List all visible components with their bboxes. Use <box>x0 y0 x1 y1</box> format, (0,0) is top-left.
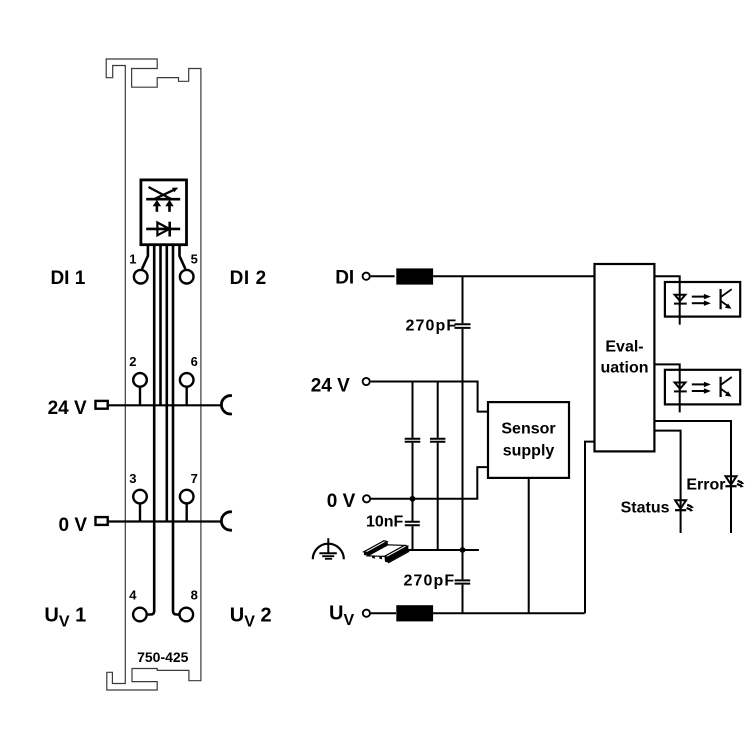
24V square connector <box>96 401 108 409</box>
optocoupler OC1 box <box>665 282 740 317</box>
LED diode arrow 1 head <box>153 200 161 207</box>
wire UV terminal to filter <box>371 612 396 614</box>
error LED emission arrows <box>737 481 742 486</box>
svg-text:10nF: 10nF <box>366 514 404 531</box>
LED indicator box <box>141 180 187 245</box>
wire capacitor C2 branch <box>412 382 414 551</box>
0V jumper contact arc <box>221 512 232 530</box>
svg-text:5: 5 <box>191 252 198 267</box>
wire DI filter to evaluation <box>433 275 594 277</box>
terminal 3 stem <box>139 503 141 521</box>
svg-text:0 V: 0 V <box>327 491 356 512</box>
svg-text:Error: Error <box>686 477 725 494</box>
wire UV line <box>433 612 585 614</box>
svg-text:24 V: 24 V <box>311 376 350 397</box>
OC1 emitter <box>721 301 729 307</box>
diode D1 triangle <box>157 223 169 236</box>
svg-text:uation: uation <box>601 359 649 376</box>
ground bar 2 <box>322 555 334 557</box>
svg-text:1: 1 <box>129 252 136 267</box>
capacitor C5 270pF plates <box>455 580 471 583</box>
evaluation box <box>595 264 655 451</box>
status LED cathode <box>675 509 686 511</box>
ground bar 3 <box>325 558 332 560</box>
OC1 collector <box>721 289 732 297</box>
DIN rail icon foot 2 <box>379 556 382 559</box>
optocoupler OC2 box <box>665 370 740 405</box>
svg-text:6: 6 <box>191 354 198 369</box>
OC2 collector <box>721 377 732 385</box>
OC2 coupling arrow 2 <box>692 390 705 392</box>
status LED triangle <box>675 500 686 508</box>
svg-text:Eval-: Eval- <box>605 338 643 355</box>
terminal 1 <box>134 270 148 284</box>
wire evaluation to optocoupler 2 <box>654 364 679 412</box>
svg-text:Sensor: Sensor <box>501 421 555 438</box>
DIN rail icon front flange end cap <box>385 556 389 562</box>
wire m4 box to terminal 8 <box>173 244 179 615</box>
wire evaluation to optocoupler 1 <box>654 276 679 324</box>
functional earth stem <box>327 538 329 553</box>
24V rail line <box>108 404 222 406</box>
wire 24V line <box>371 382 488 412</box>
wire 0V line <box>371 467 488 499</box>
junction dot 0V C2 <box>410 496 416 502</box>
LED emission arrow shaft <box>155 190 175 199</box>
terminal 8 <box>180 608 194 622</box>
status LED emission arrows <box>687 505 692 510</box>
capacitor C4 10nF plates <box>405 522 420 525</box>
LED diode arrow 1 stem <box>156 205 159 212</box>
diode D1 line <box>146 228 180 231</box>
svg-text:DI 2: DI 2 <box>230 268 267 289</box>
LED diagonal line <box>149 187 172 199</box>
svg-text:Status: Status <box>621 499 670 516</box>
terminal 7 <box>180 490 194 504</box>
svg-text:DI 1: DI 1 <box>50 268 85 289</box>
svg-text:270pF: 270pF <box>404 572 456 589</box>
capacitor C1 270pF plates <box>455 324 471 328</box>
terminal 5 <box>180 270 194 284</box>
DIN rail icon back flange wall <box>367 542 388 556</box>
capacitor C2 plates <box>405 439 421 442</box>
diode D1 cathode <box>168 222 171 237</box>
0V rail line <box>108 520 222 522</box>
svg-text:supply: supply <box>503 443 555 460</box>
OC2 phototransistor bar <box>719 377 721 397</box>
terminal 4 <box>133 608 147 622</box>
svg-text:0 V: 0 V <box>58 515 87 536</box>
error LED cathode <box>725 485 736 487</box>
OC1 LED triangle <box>675 295 686 301</box>
svg-text:8: 8 <box>191 588 198 603</box>
wire box to terminal 1 <box>142 244 148 269</box>
wire evaluation to UV stub <box>585 442 595 614</box>
DIN rail icon channel floor <box>368 545 405 557</box>
OC2 emitter <box>721 389 729 395</box>
svg-text:270pF: 270pF <box>406 317 458 334</box>
wire m2 box to 24V rail <box>159 244 162 406</box>
wire m3 box to 0V rail <box>166 244 169 522</box>
wire evaluation to error LED <box>654 421 731 533</box>
wire DI terminal to filter <box>371 275 395 277</box>
filter resistor DI <box>396 268 433 284</box>
svg-text:3: 3 <box>129 471 136 486</box>
OC2 coupling arrow 1 <box>692 383 705 385</box>
svg-text:UV 2: UV 2 <box>230 604 272 630</box>
terminal 2 stem <box>139 387 141 406</box>
filter resistor UV <box>396 605 433 621</box>
wire box to terminal 5 <box>180 244 186 269</box>
sensor supply box <box>488 402 569 478</box>
OC2 LED cathode <box>674 390 687 392</box>
svg-text:2: 2 <box>129 354 136 369</box>
24V input terminal <box>363 378 370 385</box>
OC1 coupling arrow 2 <box>692 302 705 304</box>
LED diode arrow 2 stem <box>168 205 171 212</box>
OC2 LED triangle <box>675 383 686 389</box>
wire evaluation to status LED <box>654 431 680 533</box>
OC1 LED cathode <box>674 303 687 305</box>
svg-text:24 V: 24 V <box>48 398 87 419</box>
DIN rail icon front flange top <box>385 545 408 557</box>
ground bus line <box>398 549 479 551</box>
LED diode arrow 2 head <box>165 200 173 207</box>
terminal 3 <box>133 490 147 504</box>
DI input terminal <box>363 273 370 280</box>
svg-text:750-425: 750-425 <box>137 649 189 665</box>
wire m1 box to terminal 4 <box>148 244 154 615</box>
svg-text:DI: DI <box>335 268 354 289</box>
OC1 coupling arrow 1 <box>692 296 705 298</box>
wire capacitor C3 branch <box>437 382 439 551</box>
junction dot ground <box>460 547 466 553</box>
wire DI branch vertical <box>462 276 464 613</box>
functional earth dome arc <box>313 544 344 560</box>
LED emission arrow head <box>172 188 178 193</box>
0V square connector <box>96 517 108 525</box>
error LED triangle <box>726 476 737 484</box>
capacitor C3 plates <box>430 439 445 442</box>
UV input terminal <box>363 610 370 617</box>
svg-text:UV 1: UV 1 <box>44 604 86 630</box>
DIN rail icon back flange end cap <box>364 552 368 556</box>
DIN rail icon foot 1 <box>372 556 375 559</box>
terminal 7 stem <box>185 503 187 521</box>
svg-text:UV: UV <box>329 603 354 630</box>
24V jumper contact arc <box>221 396 232 414</box>
terminal 2 <box>133 373 147 387</box>
module outline 750-425 <box>106 59 201 690</box>
OC1 phototransistor bar <box>719 289 721 309</box>
0V input terminal <box>363 495 370 502</box>
LED pair bar <box>146 198 180 201</box>
DIN rail icon back flange top <box>364 541 387 553</box>
DIN rail icon front flange wall <box>388 546 409 561</box>
terminal 6 <box>180 373 194 387</box>
ground bar 1 <box>319 552 336 554</box>
svg-text:4: 4 <box>129 588 137 603</box>
DIN rail icon front flange lip <box>389 550 409 562</box>
terminal 6 stem <box>185 387 187 406</box>
wire sensor supply output <box>528 478 530 613</box>
svg-text:7: 7 <box>191 471 198 486</box>
